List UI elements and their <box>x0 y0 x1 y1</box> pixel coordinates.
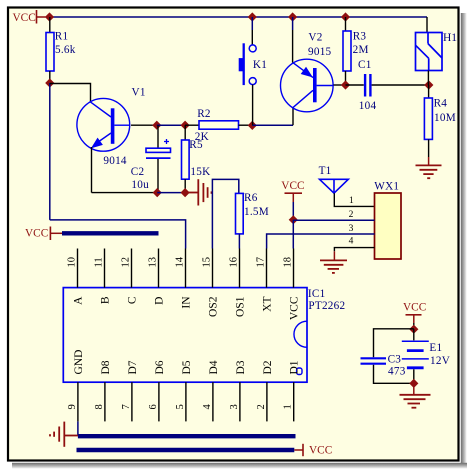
node C2 top <box>152 121 161 130</box>
wire V1 base lead <box>50 84 91 103</box>
wire H1 top lead <box>426 17 428 33</box>
wire VCC bus to address pins (thick) <box>62 231 159 235</box>
svg-text:6: 6 <box>148 404 159 409</box>
svg-text:R6: R6 <box>244 192 258 204</box>
svg-text:D: D <box>154 297 166 305</box>
wire to IC pin 14 (IN) <box>50 220 186 249</box>
pin 15 (OS2) <box>212 249 214 288</box>
svg-text:1: 1 <box>283 404 294 409</box>
svg-text:13: 13 <box>148 257 159 268</box>
node battery bottom <box>409 379 418 388</box>
node V2 emitter top <box>288 12 297 21</box>
node VCC / WX1 pin2 <box>289 215 298 224</box>
node R5 top <box>181 121 190 130</box>
wire R6 to IC pin16 <box>238 234 240 249</box>
svg-text:2: 2 <box>256 404 267 409</box>
wire K1 bottom lead <box>252 85 254 126</box>
pin 2 (D2) <box>266 382 268 421</box>
wire IC pin15 to R6 <box>212 179 238 248</box>
wire left vertical down <box>49 83 51 220</box>
wire V2 base to node <box>334 84 346 86</box>
wire T1 to WX1 pin1 <box>334 193 374 206</box>
pin 14 (IN) <box>185 249 187 288</box>
wire node to V2 collector <box>252 124 293 126</box>
ground (below E1) <box>400 395 431 408</box>
IC U1 IC1 PT2262 <box>63 288 307 383</box>
svg-text:12: 12 <box>121 257 132 268</box>
switch K1 (push button) <box>244 43 257 85</box>
svg-text:B: B <box>100 296 112 304</box>
svg-text:14: 14 <box>175 256 186 267</box>
wire between C2 and R5 nodes <box>157 124 185 126</box>
svg-text:5.6k: 5.6k <box>55 44 76 56</box>
svg-text:2: 2 <box>349 210 354 220</box>
resistor R6 1.5M <box>236 193 244 234</box>
svg-text:XT: XT <box>262 297 274 312</box>
svg-text:12V: 12V <box>430 355 450 367</box>
wire R5 top lead <box>184 125 186 140</box>
svg-text:473: 473 <box>388 366 406 378</box>
node C1 right <box>424 80 433 89</box>
resistor R3 2M <box>343 31 351 71</box>
wire V1 emitter down <box>91 147 93 193</box>
svg-text:10: 10 <box>67 257 78 268</box>
svg-text:C1: C1 <box>358 59 372 71</box>
pin 13 (D) <box>158 249 160 288</box>
wire R2 to node <box>239 124 253 126</box>
node top-left junction <box>45 12 54 21</box>
pin 16 (OS1) <box>239 249 241 288</box>
svg-text:VCC: VCC <box>25 227 48 239</box>
wire node to R4 <box>428 85 430 98</box>
svg-text:1: 1 <box>349 196 354 206</box>
node R3 bottom <box>341 80 350 89</box>
wire R5 bottom lead <box>184 179 186 192</box>
svg-text:H1: H1 <box>443 32 457 44</box>
pin 7 (D7) <box>131 382 133 421</box>
ground (right of R5) <box>185 179 211 205</box>
svg-text:9014: 9014 <box>103 155 127 167</box>
wire battery top lead <box>413 329 415 340</box>
svg-text:3: 3 <box>349 224 354 234</box>
wire node to C1 <box>346 84 364 86</box>
pin 10 (A) <box>77 249 79 288</box>
power flag VCC (bottom) <box>294 449 303 451</box>
svg-text:OS2: OS2 <box>208 296 220 317</box>
node R2 right <box>248 121 257 130</box>
transistor V1 9014 (NPN) <box>77 98 130 151</box>
capacitor C2 10u (electrolytic) <box>146 148 171 152</box>
resistor R1 5.6k <box>46 33 54 72</box>
svg-text:OS1: OS1 <box>235 296 247 317</box>
svg-text:E1: E1 <box>429 342 442 354</box>
svg-text:WX1: WX1 <box>374 181 399 193</box>
svg-text:4: 4 <box>202 404 213 410</box>
svg-text:R3: R3 <box>353 31 367 43</box>
svg-text:R5: R5 <box>189 139 203 151</box>
pin 18 (VCC) <box>293 249 295 288</box>
capacitor C3 473 <box>361 357 387 359</box>
wire K1 top lead <box>251 17 253 30</box>
wire battery bottom lead <box>413 369 415 383</box>
wire R3 top lead <box>345 17 347 31</box>
svg-text:R1: R1 <box>55 30 69 42</box>
wire R1 bottom to node <box>49 71 51 83</box>
wire C2 bottom lead <box>157 159 159 193</box>
wire WX1 pin3 to IC pin17 <box>267 234 375 249</box>
svg-text:8: 8 <box>94 404 105 409</box>
svg-text:4: 4 <box>349 237 354 247</box>
svg-text:D6: D6 <box>154 360 166 374</box>
pin 9 (GND) <box>77 382 79 421</box>
svg-text:D7: D7 <box>127 360 139 374</box>
svg-text:9: 9 <box>67 404 78 409</box>
svg-text:D4: D4 <box>208 360 220 374</box>
svg-text:V2: V2 <box>308 32 322 44</box>
pin 3 (D3) <box>239 382 241 421</box>
svg-text:17: 17 <box>256 257 267 268</box>
svg-text:R4: R4 <box>434 97 448 109</box>
wire V1 emitter net <box>92 192 158 194</box>
transducer H1 <box>416 33 443 71</box>
svg-text:2M: 2M <box>353 44 369 56</box>
node R5 bottom <box>181 188 190 197</box>
svg-text:5: 5 <box>175 404 186 409</box>
svg-text:C3: C3 <box>388 354 402 366</box>
svg-text:16: 16 <box>229 257 240 268</box>
wire VCC to R1 <box>49 17 51 33</box>
node battery top <box>409 325 418 334</box>
svg-text:C2: C2 <box>131 166 145 178</box>
wire WX1 pin2 to VCC node <box>293 219 374 221</box>
node R1 bottom <box>45 78 54 87</box>
pin 11 (B) <box>104 249 106 288</box>
svg-text:10M: 10M <box>434 112 456 124</box>
ground (below R4) <box>416 165 442 178</box>
pin 17 (XT) <box>266 249 268 288</box>
svg-text:GND: GND <box>73 350 85 375</box>
ground (below WX1 pin4) <box>320 260 347 273</box>
wire C2 top lead <box>157 125 159 148</box>
svg-text:T1: T1 <box>319 165 332 177</box>
svg-text:IN: IN <box>181 296 193 309</box>
svg-text:R2: R2 <box>197 108 211 120</box>
capacitor C1 104 <box>364 74 366 97</box>
node C2 bottom <box>153 188 162 197</box>
svg-text:9015: 9015 <box>308 46 332 58</box>
ground (bottom-left) <box>50 422 78 447</box>
svg-text:10u: 10u <box>131 179 149 191</box>
wire top VCC rail <box>50 16 428 18</box>
pin 5 (D5) <box>185 382 187 421</box>
wire R5 node to R2 <box>185 124 199 126</box>
node R3 top <box>341 12 350 21</box>
wire H1 bottom lead <box>427 71 429 86</box>
svg-text:104: 104 <box>359 100 377 112</box>
wire C2-R5 bottom <box>157 192 185 194</box>
svg-text:D8: D8 <box>100 360 112 374</box>
svg-text:15K: 15K <box>190 166 210 178</box>
wire C3 bottom <box>374 365 414 384</box>
svg-text:V1: V1 <box>132 87 146 99</box>
wire pin9 to GND bus <box>77 421 79 436</box>
wire VCC down to node <box>292 202 294 220</box>
svg-text:K1: K1 <box>253 59 267 71</box>
pin 1 (D1) <box>293 382 295 421</box>
wire C1 to node <box>372 84 429 86</box>
resistor R2 2K <box>199 121 239 129</box>
svg-text:18: 18 <box>283 257 294 268</box>
wire C3 branch <box>374 329 414 358</box>
resistor R4 10M <box>424 98 432 139</box>
wire VCC to battery node <box>413 323 415 329</box>
svg-text:VCC: VCC <box>403 301 426 313</box>
svg-text:D1: D1 <box>289 360 301 374</box>
pin 4 (D4) <box>212 382 214 421</box>
svg-text:1.5M: 1.5M <box>244 206 269 218</box>
pin 12 (C) <box>131 249 133 288</box>
svg-text:D3: D3 <box>235 360 247 374</box>
pin 6 (D6) <box>158 382 160 421</box>
pin 8 (D8) <box>104 382 106 421</box>
wire VCC bus (thick) <box>77 448 295 452</box>
wire V1 collector to node <box>131 124 157 126</box>
svg-text:D2: D2 <box>262 360 274 374</box>
svg-text:VCC: VCC <box>281 180 304 192</box>
svg-text:VCC: VCC <box>13 12 36 24</box>
transistor V2 9015 (PNP) <box>281 59 334 112</box>
wire GND bus (thick) <box>78 434 296 438</box>
svg-text:VCC: VCC <box>289 296 301 320</box>
battery E1 12V <box>402 341 429 368</box>
wire R3 bottom lead <box>345 71 347 85</box>
svg-text:VCC: VCC <box>309 445 332 457</box>
wire WX1 pin4 to ground <box>334 248 374 252</box>
svg-text:C: C <box>127 296 139 304</box>
node K1 top <box>248 12 257 21</box>
svg-text:11: 11 <box>94 257 105 267</box>
wire node to IC pin18 <box>292 220 294 249</box>
svg-text:PT2262: PT2262 <box>308 300 345 312</box>
svg-text:A: A <box>73 296 85 305</box>
svg-text:IC1: IC1 <box>308 288 326 300</box>
svg-text:7: 7 <box>121 404 132 409</box>
resistor R5 15K <box>182 140 190 179</box>
wire V2 emitter lead <box>292 17 294 30</box>
svg-text:D5: D5 <box>181 360 193 374</box>
svg-text:15: 15 <box>202 257 213 268</box>
wire R4 bottom lead <box>428 139 430 157</box>
svg-text:3: 3 <box>229 404 240 409</box>
